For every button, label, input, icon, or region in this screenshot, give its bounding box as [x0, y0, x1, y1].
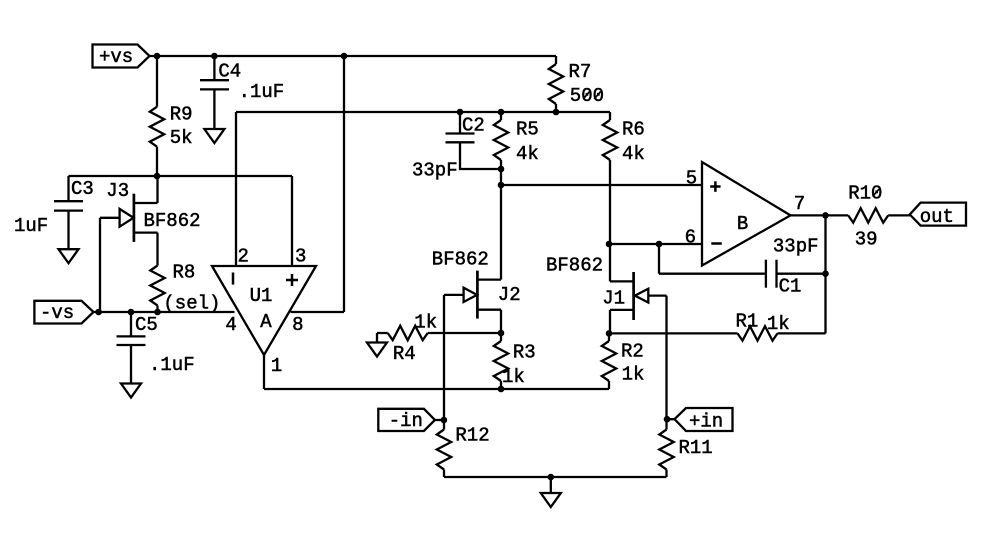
label J1 BF862: [546, 255, 603, 277]
label U1 A: [260, 311, 272, 333]
svg-text:R10: R10: [848, 183, 882, 205]
wire R6 top corner: [609, 112, 611, 120]
svg-text:R4: R4: [393, 343, 416, 365]
resistor R6: [603, 119, 645, 166]
wire C5 bottom: [130, 345, 132, 384]
node dot +in: [664, 416, 671, 423]
svg-text:-vs: -vs: [40, 302, 74, 324]
svg-text:+vs: +vs: [99, 46, 133, 68]
resistor R11: [659, 430, 712, 470]
wire R8 bottom: [156, 306, 158, 313]
svg-text:A: A: [260, 311, 272, 333]
wire bottom rail: [444, 476, 667, 478]
svg-text:5k: 5k: [170, 127, 193, 149]
wire R1 left: [609, 332, 738, 334]
op-amp B minus mark: [711, 242, 722, 245]
resistor R8: [150, 262, 195, 306]
op-amp B plus mark: [710, 181, 720, 192]
svg-text:C1: C1: [779, 276, 802, 298]
wire U1 pin3 vertical: [291, 176, 293, 266]
label B pin6: [685, 227, 696, 249]
svg-text:out: out: [920, 206, 954, 228]
label J1: [602, 288, 625, 310]
ground below C5: [121, 384, 141, 398]
net flag out: [910, 203, 966, 228]
resistor R10: [848, 183, 888, 251]
wire C3 bottom: [67, 211, 69, 250]
capacitor C4: [200, 61, 284, 104]
node dot C2 top: [457, 109, 464, 116]
wire R3 top: [500, 333, 502, 341]
ground below R4: [367, 333, 387, 357]
wire C1 left: [659, 244, 766, 274]
node dot R3/out rail: [498, 386, 505, 393]
svg-text:R12: R12: [455, 425, 489, 447]
op-amp U1 plus mark: [286, 274, 298, 286]
label U1 pin1: [271, 355, 282, 377]
svg-text:J3: J3: [106, 180, 129, 202]
svg-text:+in: +in: [689, 411, 723, 433]
ground below C3: [59, 249, 79, 263]
wire -in tip: [435, 419, 444, 421]
resistor R9: [150, 104, 193, 150]
ground bottom: [541, 477, 561, 507]
label J2: [498, 284, 521, 306]
wire R5 top: [500, 112, 502, 120]
wire R6 bottom to J1 drain: [609, 160, 611, 281]
node dot +vs/pin8 branch: [341, 53, 348, 60]
transistor J1 gate arrow: [635, 289, 648, 303]
node dot output: [822, 212, 829, 219]
svg-text:1k: 1k: [502, 366, 525, 388]
wire R5 bottom: [500, 160, 502, 185]
wire R5 node to J2 drain: [500, 185, 502, 280]
wire U1 pin2 vertical: [235, 112, 237, 266]
node dot -vs/J3 gate: [95, 309, 102, 316]
svg-text:R3: R3: [513, 342, 536, 364]
resistor R4: [377, 312, 501, 366]
transistor J2 source stub: [477, 310, 501, 333]
svg-text:5: 5: [686, 168, 697, 190]
svg-text:J1: J1: [602, 288, 625, 310]
svg-text:BF862: BF862: [144, 210, 201, 232]
transistor J2 gate wire: [444, 295, 464, 420]
svg-text:R1: R1: [736, 311, 759, 333]
svg-text:C5: C5: [135, 314, 158, 336]
svg-text:3: 3: [295, 246, 306, 268]
svg-text:2: 2: [238, 246, 249, 268]
wire R1 right: [778, 332, 826, 334]
transistor J1 gate wire: [648, 296, 666, 420]
wire out vertical: [824, 215, 826, 333]
node dot R5 top: [498, 109, 505, 116]
wire R7 bottom: [555, 104, 557, 112]
wire R10 to out flag: [888, 214, 910, 216]
svg-text:J2: J2: [498, 284, 521, 306]
node dot R7 bottom: [553, 109, 560, 116]
node dot C1/out vertical: [822, 270, 829, 277]
wire C5 top: [130, 312, 132, 336]
wire +vs top rail: [150, 55, 557, 57]
net flag +vs: [93, 45, 150, 68]
label U1 pin4: [225, 314, 236, 336]
transistor J1 drain stub: [610, 280, 634, 282]
wire R2 top: [608, 333, 610, 341]
node dot +vs/R9: [154, 53, 161, 60]
node dot bottom ground: [548, 474, 555, 481]
svg-text:1uF: 1uF: [14, 215, 48, 237]
label U1 pin3: [295, 246, 306, 268]
svg-text:6: 6: [685, 227, 696, 249]
wire R2 bottom: [608, 381, 610, 389]
svg-text:U1: U1: [250, 285, 273, 307]
transistor J2 channel bar: [476, 271, 479, 319]
svg-text:1k: 1k: [414, 312, 437, 334]
wire R12 top: [443, 420, 445, 430]
resistor R2: [602, 341, 645, 386]
wire C2 top: [459, 112, 461, 134]
label B pin5: [686, 168, 697, 190]
wire R11 bottom: [665, 470, 667, 478]
wire node rail y112: [236, 111, 610, 113]
wire C3 top: [67, 176, 69, 201]
net flag -in: [378, 409, 435, 432]
resistor R12: [437, 425, 490, 470]
resistor R7: [549, 61, 604, 107]
label B: [737, 213, 748, 235]
node dot -vs/C5: [128, 309, 135, 316]
transistor J3 gate arrow: [120, 209, 134, 227]
wire B output: [791, 214, 849, 216]
svg-text:33pF: 33pF: [412, 160, 458, 182]
wire R12 bottom: [443, 470, 445, 478]
svg-text:R6: R6: [622, 119, 645, 141]
wire R11 top: [665, 419, 667, 429]
label J3: [106, 180, 129, 202]
wire C4 top: [213, 56, 215, 80]
transistor J3 drain stub: [134, 176, 158, 203]
wire +in tip: [667, 418, 675, 420]
capacitor C5: [117, 314, 195, 376]
svg-text:1: 1: [271, 355, 282, 377]
ground below C4: [204, 129, 224, 143]
node dot R5/pin5: [498, 182, 505, 189]
node dot +vs/C4: [211, 53, 218, 60]
wire C1 right: [777, 273, 826, 275]
node dot pin6/R6: [606, 241, 613, 248]
wire R9 bottom: [156, 147, 158, 176]
label J2 BF862: [432, 249, 489, 271]
resistor R3: [494, 341, 536, 388]
wire pin8 +vs vertical: [291, 56, 344, 312]
capacitor C3: [14, 178, 94, 237]
capacitor C1: [766, 236, 819, 298]
wire R9 top: [156, 56, 158, 107]
svg-text:4k: 4k: [622, 143, 645, 165]
svg-text:4k: 4k: [516, 143, 539, 165]
wire C4 bottom: [213, 89, 215, 129]
label B pin7: [794, 193, 805, 215]
resistor R1: [736, 311, 790, 341]
wire -vs rail: [94, 311, 235, 313]
net flag +in: [675, 408, 733, 433]
svg-text:R11: R11: [679, 437, 713, 459]
svg-text:R9: R9: [170, 104, 193, 126]
node dot C2/R5: [498, 166, 505, 173]
transistor J1 channel bar: [632, 272, 635, 320]
svg-text:C2: C2: [462, 115, 485, 137]
svg-text:1k: 1k: [622, 364, 645, 386]
svg-text:39: 39: [855, 229, 878, 251]
wire U1 pin1 output: [264, 355, 609, 389]
transistor J3 channel bar: [133, 194, 136, 242]
node dot -vs/R8: [154, 309, 161, 316]
node dot pin6/C1: [656, 241, 663, 248]
node dot R9/J3 drain: [154, 173, 161, 180]
svg-text:R2: R2: [621, 341, 644, 363]
net flag -vs: [34, 301, 93, 324]
svg-text:8: 8: [292, 314, 303, 336]
label U1 pin2: [238, 246, 249, 268]
capacitor C2: [412, 115, 485, 182]
wire rail y176: [69, 175, 293, 177]
op-amp U1 minus mark: [232, 273, 235, 285]
svg-text:BF862: BF862: [546, 255, 603, 277]
svg-text:C4: C4: [218, 61, 241, 83]
transistor J3 source stub: [134, 233, 158, 266]
wire C2 bottom: [460, 142, 501, 169]
node dot J2 source/R3: [498, 330, 505, 337]
svg-text:B: B: [737, 213, 748, 235]
svg-text:BF862: BF862: [432, 249, 489, 271]
node dot J1 source/R2: [606, 330, 613, 337]
svg-text:7: 7: [794, 193, 805, 215]
node dot -in: [441, 417, 448, 424]
transistor J2 gate arrow: [464, 288, 477, 302]
svg-text:R5: R5: [516, 119, 539, 141]
label J3 BF862: [144, 210, 201, 232]
svg-text:4: 4: [225, 314, 236, 336]
svg-text:.1uF: .1uF: [239, 81, 285, 103]
wire R3 bottom: [500, 381, 502, 389]
transistor J3 gate wire: [100, 218, 120, 312]
op-amp U1 B: [702, 162, 791, 266]
label U1: [250, 285, 273, 307]
transistor J1 source stub: [610, 310, 634, 334]
label U1 pin8: [292, 314, 303, 336]
svg-text:-in: -in: [389, 410, 423, 432]
resistor R5: [494, 119, 539, 166]
wire pin6 rail: [609, 243, 702, 245]
wire R7 top drop: [555, 56, 557, 64]
label (sel): [163, 293, 220, 315]
svg-text:R7: R7: [569, 61, 592, 83]
wire pin5 rail: [501, 184, 702, 186]
svg-text:C3: C3: [71, 178, 94, 200]
svg-text:.1uF: .1uF: [149, 354, 195, 376]
svg-text:R8: R8: [173, 262, 196, 284]
transistor J2 drain stub: [477, 278, 501, 280]
op-amp U1: [212, 266, 316, 355]
svg-text:1k: 1k: [767, 313, 790, 335]
svg-text:33pF: 33pF: [773, 236, 819, 258]
